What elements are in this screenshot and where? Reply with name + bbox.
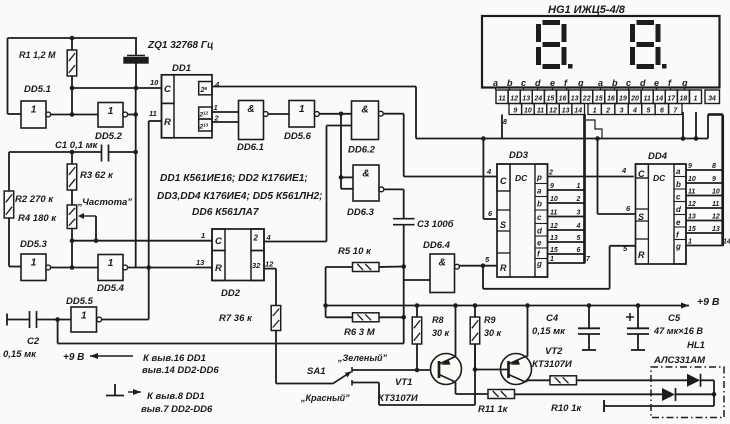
svg-text:c: c	[626, 78, 631, 88]
svg-text:15: 15	[688, 226, 696, 233]
svg-text:C5: C5	[668, 313, 681, 324]
svg-text:g: g	[577, 78, 584, 88]
wire	[475, 369, 509, 371]
wire	[455, 306, 457, 357]
svg-text:КТ3107И: КТ3107И	[378, 393, 418, 404]
wire	[708, 115, 723, 139]
svg-text:1: 1	[550, 256, 554, 263]
svg-text:12: 12	[712, 214, 720, 221]
svg-text:C: C	[215, 236, 222, 247]
svg-text:C2: C2	[27, 336, 40, 347]
svg-text:9: 9	[550, 183, 554, 190]
svg-text:DD6 К561ЛА7: DD6 К561ЛА7	[192, 207, 260, 218]
svg-text:15: 15	[595, 96, 603, 103]
svg-text:1: 1	[201, 231, 205, 240]
svg-text:24: 24	[533, 96, 542, 103]
svg-text:1: 1	[214, 103, 218, 112]
svg-text:b: b	[612, 78, 618, 88]
svg-text:R10 1к: R10 1к	[551, 403, 582, 414]
svg-text:ZQ1 32768 Гц: ZQ1 32768 Гц	[147, 40, 213, 51]
wire	[383, 114, 496, 177]
wire seg 5	[548, 235, 585, 242]
svg-text:47 мк×16 В: 47 мк×16 В	[653, 326, 703, 336]
wire	[58, 320, 404, 344]
counter DD1	[162, 63, 213, 138]
wire seg 10	[686, 189, 723, 196]
svg-text:9: 9	[688, 163, 692, 170]
wire	[102, 121, 149, 320]
svg-text:К выв.8 DD1: К выв.8 DD1	[147, 391, 205, 402]
svg-text:С3 100б: С3 100б	[417, 219, 455, 230]
resistor R5	[326, 246, 404, 272]
svg-text:1: 1	[688, 239, 692, 246]
svg-text:12: 12	[688, 201, 696, 208]
wire	[264, 241, 327, 243]
wire	[319, 112, 351, 117]
svg-text:b: b	[676, 180, 681, 189]
svg-text:2: 2	[253, 234, 259, 243]
wire	[128, 88, 138, 268]
svg-text:+9 В: +9 В	[63, 352, 84, 363]
svg-text:DD6.2: DD6.2	[348, 145, 376, 156]
label red	[300, 393, 350, 403]
pin 10	[150, 78, 159, 87]
connector row 2	[509, 104, 682, 115]
wire	[604, 400, 714, 412]
svg-text:10: 10	[712, 189, 720, 196]
svg-text:4: 4	[632, 108, 637, 115]
svg-text:C4: C4	[546, 313, 559, 324]
resistor R6	[326, 313, 404, 338]
wire	[701, 380, 716, 406]
pin 6	[626, 204, 631, 213]
wire	[515, 393, 663, 395]
svg-text:DC: DC	[515, 173, 528, 183]
wire	[51, 241, 98, 270]
svg-text:30 к: 30 к	[432, 328, 450, 338]
svg-text:DD5.4: DD5.4	[97, 283, 125, 294]
svg-text:c: c	[521, 78, 526, 88]
svg-text:R3 62 к: R3 62 к	[80, 170, 114, 181]
svg-text:d: d	[535, 78, 541, 88]
pin 5	[485, 255, 490, 264]
resistor R7	[219, 306, 281, 331]
pin 11	[149, 109, 162, 121]
svg-text:11: 11	[550, 210, 557, 217]
capacitor C3	[393, 219, 455, 230]
svg-text:DD2: DD2	[221, 288, 241, 299]
wire seg 3	[548, 210, 585, 217]
svg-text:2: 2	[576, 196, 581, 203]
capacitor C5	[626, 306, 703, 351]
svg-text:„Красный”: „Красный”	[300, 393, 350, 403]
pin 6	[488, 209, 493, 218]
pin 13	[196, 258, 205, 267]
svg-text:+9 В: +9 В	[697, 296, 720, 308]
svg-text:13: 13	[522, 96, 530, 103]
display HG1	[482, 4, 720, 88]
svg-text:1: 1	[694, 96, 698, 103]
svg-text:выв.7 DD2-DD6: выв.7 DD2-DD6	[141, 404, 213, 415]
svg-text:10: 10	[550, 196, 558, 203]
resistor R1	[19, 38, 77, 88]
connector row 1	[496, 90, 720, 104]
svg-text:g: g	[536, 260, 542, 269]
svg-text:c: c	[537, 213, 542, 222]
pin 1	[201, 231, 205, 240]
segment letters	[493, 78, 688, 88]
diode HL1.2	[662, 388, 676, 401]
wire	[577, 379, 688, 381]
wire	[212, 86, 416, 88]
svg-text:6: 6	[577, 247, 581, 254]
wire seg 7	[548, 256, 592, 263]
svg-text:1: 1	[81, 311, 87, 322]
svg-text:13: 13	[712, 226, 720, 233]
svg-text:1: 1	[577, 183, 581, 190]
svg-text:e: e	[537, 239, 542, 248]
resistor R2	[4, 152, 54, 267]
svg-text:C: C	[638, 169, 645, 179]
svg-text:DD5.3: DD5.3	[20, 239, 48, 250]
capacitor C1	[9, 140, 136, 162]
pin 5	[623, 244, 628, 253]
pin 4	[214, 80, 220, 89]
svg-text:c: c	[676, 193, 681, 202]
svg-text:11: 11	[688, 189, 695, 196]
wire	[212, 112, 239, 122]
wire +9V rail	[323, 303, 689, 309]
wire	[483, 139, 497, 220]
svg-text:11: 11	[643, 96, 650, 103]
svg-text:11: 11	[537, 108, 544, 115]
wire	[339, 114, 353, 189]
svg-text:12: 12	[510, 96, 518, 103]
svg-text:КТ3107И: КТ3107И	[532, 359, 572, 370]
wire	[459, 263, 496, 268]
node C	[70, 150, 75, 155]
svg-text:1: 1	[593, 108, 597, 115]
svg-text:14: 14	[574, 108, 582, 115]
svg-text:R: R	[638, 250, 645, 260]
svg-text:R5 10 к: R5 10 к	[338, 246, 372, 257]
svg-text:12: 12	[265, 260, 274, 269]
inverter DD5.6	[284, 101, 319, 143]
svg-text:К выв.16 DD1: К выв.16 DD1	[143, 353, 206, 364]
svg-text:2: 2	[548, 170, 553, 177]
capacitor C2	[3, 311, 71, 360]
svg-text:VT1: VT1	[395, 377, 412, 388]
svg-text:e: e	[550, 78, 555, 88]
resistor R11	[478, 390, 515, 416]
wire	[502, 115, 507, 139]
svg-text:DD5.6: DD5.6	[284, 131, 312, 142]
svg-text:R2 270 к: R2 270 к	[15, 194, 54, 205]
svg-text:16: 16	[607, 96, 615, 103]
svg-text:b: b	[507, 78, 513, 88]
svg-text:3: 3	[620, 108, 624, 115]
svg-text:DC: DC	[653, 173, 666, 183]
svg-text:R8: R8	[432, 315, 444, 325]
svg-text:R11 1к: R11 1к	[478, 404, 509, 415]
wire seg 13	[686, 226, 723, 233]
wire seg 2	[548, 196, 585, 203]
wire	[676, 393, 715, 395]
svg-text:R9: R9	[484, 315, 496, 325]
wire seg 8	[686, 163, 723, 170]
digit 2 segments	[630, 20, 667, 69]
svg-text:DD5.5: DD5.5	[66, 296, 94, 307]
label green	[337, 353, 388, 363]
svg-text:13: 13	[562, 108, 570, 115]
digit 1 segments	[536, 20, 573, 69]
svg-text:DD3: DD3	[509, 150, 529, 161]
svg-text:R1 1,2 М: R1 1,2 М	[19, 50, 56, 60]
capacitor C4	[532, 306, 600, 351]
wire	[404, 279, 430, 281]
svg-text:DD1: DD1	[172, 63, 191, 74]
wire	[352, 344, 477, 405]
svg-text:C: C	[500, 176, 507, 186]
svg-text:„Частота”: „Частота”	[77, 197, 132, 208]
svg-text:11: 11	[712, 201, 719, 208]
switch SA1	[276, 366, 351, 384]
svg-text:DD5.1: DD5.1	[24, 84, 51, 95]
label power	[63, 352, 219, 376]
wire	[352, 367, 439, 373]
pin 4	[266, 233, 272, 242]
wire seg 14	[686, 239, 730, 246]
wire	[325, 267, 327, 317]
wire	[128, 265, 213, 270]
decoder DD3	[497, 150, 548, 277]
wire seg 4	[548, 223, 585, 230]
wire	[275, 331, 277, 384]
svg-text:R: R	[164, 117, 171, 128]
wire seg 11	[686, 201, 723, 208]
svg-text:11: 11	[498, 96, 505, 103]
node D	[55, 317, 60, 322]
svg-text:e: e	[676, 218, 681, 227]
svg-text:4: 4	[576, 223, 581, 230]
nand DD6.1	[237, 101, 268, 154]
svg-text:5: 5	[646, 108, 650, 115]
svg-text:VT2: VT2	[545, 346, 563, 357]
wire	[8, 38, 138, 114]
wire	[384, 189, 404, 218]
wire	[51, 88, 98, 117]
svg-text:R: R	[500, 263, 507, 273]
svg-text:R: R	[215, 263, 222, 274]
wire seg 1	[548, 183, 585, 190]
wire	[456, 382, 489, 394]
svg-text:&: &	[439, 258, 446, 269]
svg-text:g: g	[681, 78, 688, 88]
nand DD6.2	[348, 101, 383, 156]
inverter DD5.3	[20, 239, 51, 281]
svg-text:22: 22	[582, 96, 591, 103]
svg-text:13: 13	[571, 96, 579, 103]
nand DD6.4	[423, 240, 459, 293]
potentiometer R4	[18, 197, 132, 241]
wire	[264, 269, 276, 306]
svg-text:1: 1	[31, 258, 37, 269]
svg-text:12: 12	[549, 108, 557, 115]
resistor R10	[550, 376, 582, 414]
svg-text:1: 1	[299, 104, 305, 115]
pin 4	[486, 167, 492, 176]
node B	[70, 86, 139, 91]
svg-text:d: d	[640, 78, 646, 88]
svg-text:10: 10	[524, 108, 532, 115]
svg-text:17: 17	[667, 96, 676, 103]
svg-text:g: g	[675, 242, 681, 251]
transistor VT1	[378, 354, 462, 405]
svg-text:13: 13	[688, 214, 696, 221]
svg-text:S: S	[638, 212, 644, 222]
pin 12	[265, 260, 274, 269]
svg-text:8: 8	[503, 119, 507, 126]
svg-text:C1 0,1 мк: C1 0,1 мк	[55, 140, 99, 151]
svg-text:12: 12	[550, 223, 558, 230]
inverter DD5.4	[97, 255, 128, 295]
svg-text:b: b	[537, 200, 542, 209]
node A	[70, 36, 75, 41]
svg-text:a: a	[493, 78, 498, 88]
svg-text:6: 6	[660, 108, 664, 115]
svg-text:DD6.4: DD6.4	[423, 240, 451, 251]
svg-text:13: 13	[550, 235, 558, 242]
svg-text:1: 1	[108, 106, 114, 117]
svg-text:выв.14 DD2-DD6: выв.14 DD2-DD6	[142, 365, 219, 376]
svg-text:a: a	[676, 167, 681, 176]
svg-text:DD3,DD4 К176ИЕ4; DD5 К561ЛН2;: DD3,DD4 К176ИЕ4; DD5 К561ЛН2;	[157, 191, 323, 202]
svg-text:15: 15	[547, 96, 555, 103]
svg-text:14: 14	[655, 96, 663, 103]
svg-text:a: a	[598, 78, 603, 88]
svg-text:3: 3	[577, 210, 581, 217]
wire seg 9	[686, 176, 723, 183]
svg-text:4: 4	[214, 80, 220, 89]
svg-text:DD6.3: DD6.3	[347, 207, 375, 218]
svg-text:10: 10	[150, 78, 159, 87]
svg-text:DD4: DD4	[648, 151, 668, 162]
svg-text:&: &	[247, 104, 254, 115]
svg-text:18: 18	[680, 96, 688, 103]
display pin ticks	[496, 88, 685, 91]
svg-text:9: 9	[513, 108, 517, 115]
wire	[683, 112, 696, 139]
wire	[483, 246, 636, 289]
svg-text:4: 4	[486, 167, 492, 176]
wire	[526, 380, 551, 382]
svg-text:&: &	[362, 169, 369, 180]
pin 1	[214, 103, 218, 112]
parts list	[157, 173, 323, 218]
svg-text:0,15 мк: 0,15 мк	[3, 349, 37, 360]
bundle to display left	[585, 114, 603, 264]
svg-text:13: 13	[196, 258, 205, 267]
pin 2	[214, 114, 220, 123]
inverter DD5.5	[66, 296, 102, 332]
svg-text:HG1 ИЖЦ5-4/8: HG1 ИЖЦ5-4/8	[548, 4, 626, 16]
wire	[268, 113, 289, 115]
inverter DD5.1	[21, 84, 51, 128]
svg-text:DD5.2: DD5.2	[95, 131, 123, 142]
label +9V	[697, 296, 720, 308]
wire seg 6	[548, 247, 585, 254]
svg-text:10: 10	[688, 176, 696, 183]
resistor R9	[470, 306, 501, 370]
svg-text:R4 180 к: R4 180 к	[18, 213, 57, 224]
pin 4	[621, 166, 627, 175]
svg-text:1: 1	[31, 105, 37, 116]
svg-text:1: 1	[108, 258, 114, 269]
wire	[416, 87, 708, 141]
svg-text:АЛС331АМ: АЛС331АМ	[653, 355, 706, 366]
svg-text:11: 11	[149, 109, 157, 118]
transistor VT2	[501, 346, 572, 385]
counter DD2	[212, 229, 264, 299]
svg-text:30 к: 30 к	[484, 328, 502, 338]
svg-text:p: p	[536, 173, 542, 182]
svg-text:HL1: HL1	[687, 340, 705, 351]
svg-text:a: a	[537, 187, 542, 196]
wire	[72, 87, 162, 89]
resistor R8	[412, 306, 449, 371]
wire	[598, 139, 636, 215]
diode HL1.1	[687, 374, 701, 387]
svg-text:5: 5	[577, 235, 581, 242]
inverter DD5.2	[95, 103, 128, 143]
svg-text:4: 4	[621, 166, 627, 175]
svg-text:34: 34	[708, 96, 716, 103]
wire	[526, 306, 528, 357]
wire	[401, 225, 406, 344]
wire seg 12	[686, 214, 723, 221]
svg-text:SA1: SA1	[307, 366, 325, 377]
svg-text:9: 9	[712, 176, 716, 183]
svg-text:16: 16	[559, 96, 567, 103]
wire p out	[548, 170, 634, 177]
svg-text:R6 3 М: R6 3 М	[344, 327, 376, 338]
led assembly HL1	[651, 340, 724, 418]
svg-text:S: S	[500, 220, 506, 230]
svg-text:20: 20	[630, 96, 639, 103]
decoder DD4	[636, 151, 687, 264]
svg-text:R7 36 к: R7 36 к	[219, 313, 253, 324]
svg-text:2: 2	[605, 108, 610, 115]
svg-text:32: 32	[252, 261, 261, 270]
svg-text:C: C	[164, 84, 171, 95]
svg-text:19: 19	[619, 96, 627, 103]
svg-text:DD1 К561ИЕ16; DD2 К176ИЕ1;: DD1 К561ИЕ16; DD2 К176ИЕ1;	[160, 173, 308, 184]
svg-text:0,15 мк: 0,15 мк	[532, 326, 566, 337]
svg-text:DD6.1: DD6.1	[237, 142, 264, 153]
nand DD6.3	[347, 165, 384, 218]
bundle to display right	[721, 115, 724, 247]
svg-text:8: 8	[712, 163, 716, 170]
ground	[106, 384, 213, 415]
svg-text:&: &	[361, 105, 368, 116]
wire	[327, 126, 352, 242]
svg-text:15: 15	[550, 247, 558, 254]
wire	[70, 238, 213, 243]
svg-text:e: e	[654, 78, 659, 88]
svg-text:„Зеленый”: „Зеленый”	[337, 353, 388, 363]
resistor R3	[67, 152, 114, 205]
crystal ZQ1	[124, 38, 213, 88]
